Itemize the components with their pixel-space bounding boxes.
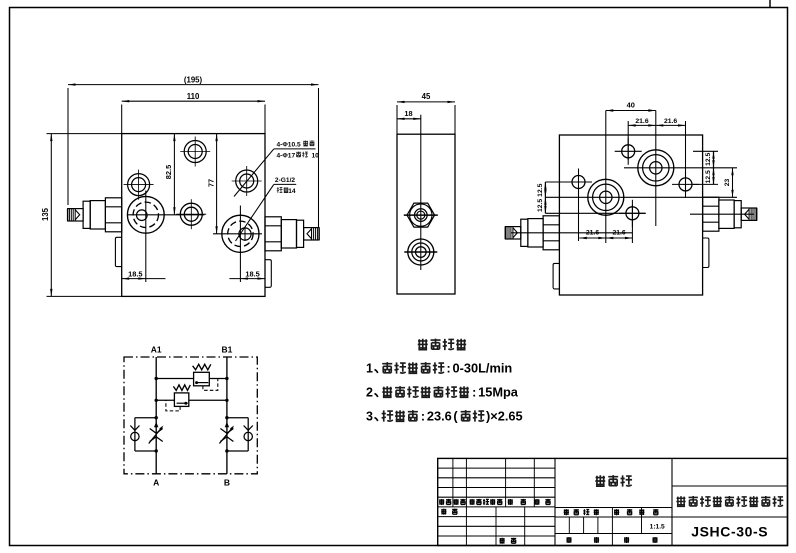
svg-text:JSHC-30-S: JSHC-30-S bbox=[691, 524, 768, 540]
svg-text:45: 45 bbox=[422, 92, 431, 101]
svg-text:(: ( bbox=[453, 409, 458, 424]
svg-text:12.5: 12.5 bbox=[537, 199, 544, 212]
svg-text:12.5: 12.5 bbox=[705, 170, 712, 183]
svg-text:18.5: 18.5 bbox=[128, 269, 142, 278]
svg-text:2: 2 bbox=[366, 386, 373, 400]
svg-text:(195): (195) bbox=[184, 75, 203, 84]
svg-text:21.6: 21.6 bbox=[635, 118, 648, 125]
svg-text::: : bbox=[421, 410, 425, 424]
svg-text::: : bbox=[472, 386, 476, 400]
svg-text:135: 135 bbox=[41, 207, 50, 221]
svg-text:12.5: 12.5 bbox=[705, 152, 712, 165]
svg-text:A1: A1 bbox=[151, 345, 162, 355]
svg-text:12.5: 12.5 bbox=[537, 183, 544, 196]
svg-text:18.5: 18.5 bbox=[245, 269, 259, 278]
svg-text:B1: B1 bbox=[221, 345, 232, 355]
svg-text::: : bbox=[447, 362, 451, 376]
svg-text:1: 1 bbox=[366, 362, 373, 376]
svg-text:4-Φ17: 4-Φ17 bbox=[277, 152, 296, 159]
svg-text:18: 18 bbox=[404, 109, 412, 118]
svg-text:4-Φ10.5: 4-Φ10.5 bbox=[277, 142, 301, 149]
svg-text:A: A bbox=[153, 478, 159, 488]
svg-text:3: 3 bbox=[366, 410, 373, 424]
svg-text:82.5: 82.5 bbox=[164, 165, 173, 179]
svg-text:0-30L/min: 0-30L/min bbox=[453, 361, 513, 376]
svg-text:110: 110 bbox=[187, 92, 200, 101]
svg-text:77: 77 bbox=[206, 179, 215, 187]
svg-text:21.6: 21.6 bbox=[612, 230, 625, 237]
svg-text:10: 10 bbox=[312, 152, 320, 159]
svg-text:23.6: 23.6 bbox=[427, 409, 452, 424]
svg-text:B: B bbox=[224, 478, 230, 488]
svg-text:)×2.65: )×2.65 bbox=[486, 409, 523, 424]
svg-text:2-G1/2: 2-G1/2 bbox=[275, 177, 295, 184]
svg-text:21.6: 21.6 bbox=[664, 118, 677, 125]
svg-text:23: 23 bbox=[724, 179, 731, 187]
svg-text:14: 14 bbox=[288, 188, 296, 195]
svg-text:21.6: 21.6 bbox=[586, 230, 599, 237]
svg-text:1:1.5: 1:1.5 bbox=[650, 524, 665, 531]
svg-text:40: 40 bbox=[627, 101, 635, 110]
svg-text:15Mpa: 15Mpa bbox=[478, 385, 519, 400]
